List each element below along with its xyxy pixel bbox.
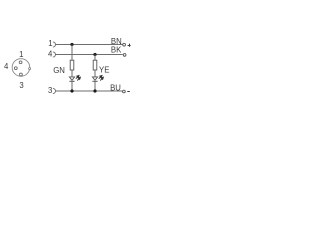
- plus sign: [128, 44, 131, 47]
- LED GN diode triangle: [69, 77, 74, 80]
- branch 2 wire middle (resistor to LED): [94, 70, 96, 77]
- svg-text:BK: BK: [111, 46, 122, 55]
- minus sign: [127, 91, 130, 93]
- keyway notch: [29, 68, 31, 70]
- connector M8 face view body circle: [12, 59, 30, 77]
- terminal circle BU: [123, 90, 126, 93]
- svg-text:4: 4: [4, 62, 9, 71]
- svg-text:1: 1: [19, 50, 23, 59]
- branch 1 wire lower (LED to line3): [71, 81, 73, 91]
- svg-text:YE: YE: [99, 65, 109, 74]
- pin 1 contact: [19, 61, 22, 64]
- branch 1 wire upper (line1 to resistor): [71, 45, 73, 61]
- node junction branch2 / line3: [93, 89, 96, 92]
- wire line 2 (pin4 to BK): [56, 54, 123, 56]
- pin 4 contact: [14, 67, 17, 70]
- terminal pin 4 socket arc: [53, 52, 56, 57]
- terminal circle BN: [123, 43, 126, 46]
- LED YE cathode bar: [92, 80, 97, 82]
- LED GN emission arrows: [76, 75, 81, 80]
- branch 2 wire lower (LED to line3): [94, 81, 96, 91]
- LED GN cathode bar: [69, 80, 74, 82]
- resistor R2: [93, 60, 97, 70]
- terminal pin 1 socket arc: [53, 42, 56, 47]
- svg-text:3: 3: [48, 86, 52, 95]
- svg-text:3: 3: [19, 81, 23, 90]
- node junction line2 / branch YE: [93, 53, 96, 56]
- svg-text:BU: BU: [110, 84, 121, 93]
- svg-text:4: 4: [48, 49, 53, 58]
- branch 1 wire middle (resistor to LED): [71, 70, 73, 77]
- svg-text:1: 1: [48, 39, 52, 48]
- wire line 1 (pin1 to BN): [56, 44, 123, 46]
- terminal pin 3 socket arc: [53, 88, 56, 93]
- resistor R1: [70, 60, 74, 70]
- LED YE diode triangle: [92, 77, 97, 80]
- LED YE emission arrows: [99, 75, 104, 80]
- wire line 3 (pin3 to BU): [56, 90, 123, 92]
- node junction branch1 / line3: [70, 89, 73, 92]
- branch 2 wire upper (line2 to resistor): [94, 55, 96, 61]
- node junction line1 / branch GN: [70, 43, 73, 46]
- terminal circle BK: [123, 54, 126, 57]
- pin 3 contact: [20, 73, 23, 76]
- svg-text:GN: GN: [53, 66, 65, 75]
